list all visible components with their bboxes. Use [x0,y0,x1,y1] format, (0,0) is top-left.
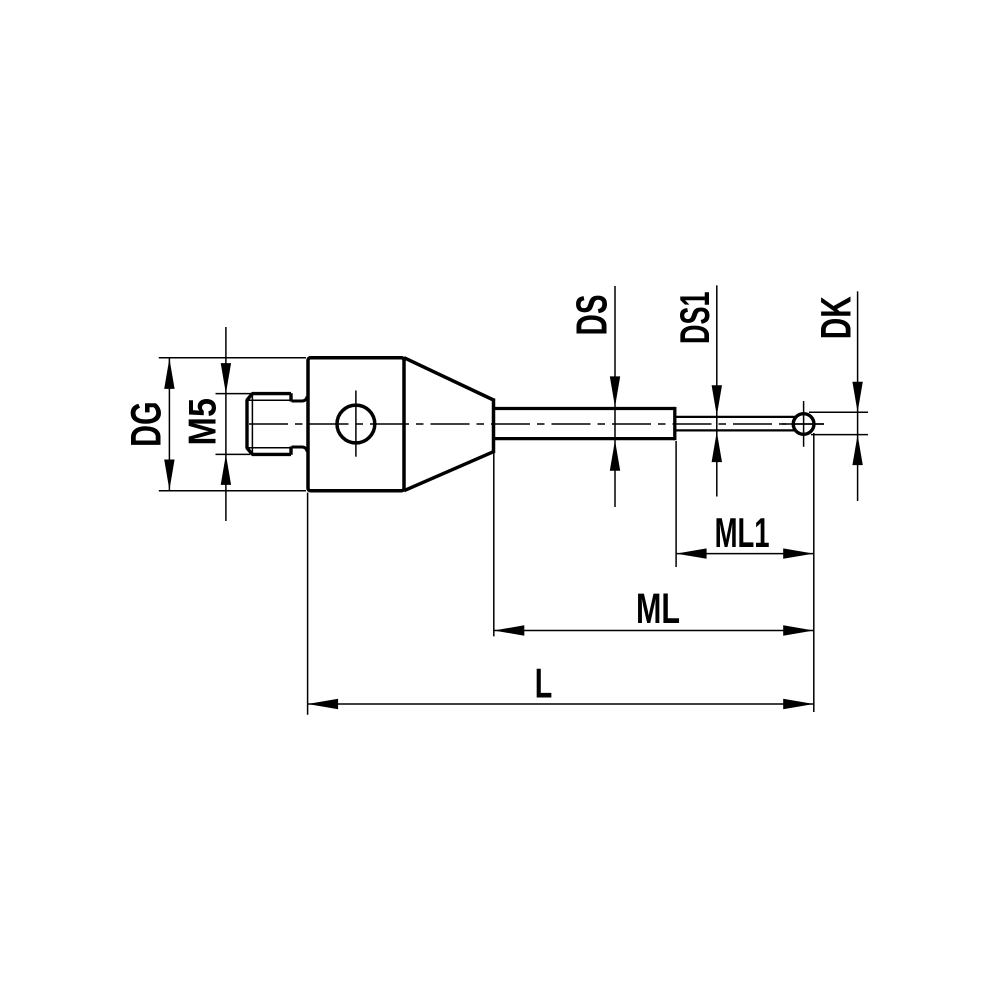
centerline [249,423,824,425]
svg-text:DS1: DS1 [671,292,718,345]
cone [404,358,494,491]
svg-text:M5: M5 [182,398,225,446]
thick shaft DS [494,407,675,440]
DS1 dimension [716,285,718,496]
L dimension [308,493,814,715]
ML1 dimension [676,433,814,712]
DK dimension [809,291,868,501]
circle crosshair [355,391,357,457]
DS dimension [614,286,616,507]
svg-text:ML1: ML1 [715,509,770,556]
svg-text:DK: DK [814,296,861,339]
svg-text:L: L [535,660,553,707]
M5 dimension [216,327,253,521]
body [308,358,404,491]
thin shaft DS1 [675,417,796,431]
thread stud M5 [247,393,308,455]
svg-text:DS: DS [568,295,617,336]
DG dimension [159,358,306,491]
svg-text:DG: DG [123,401,171,447]
neck undercut [292,396,308,452]
ML dimension [494,454,814,637]
body hole circle [337,405,375,443]
svg-text:ML: ML [636,586,680,633]
ball DK [793,414,814,435]
